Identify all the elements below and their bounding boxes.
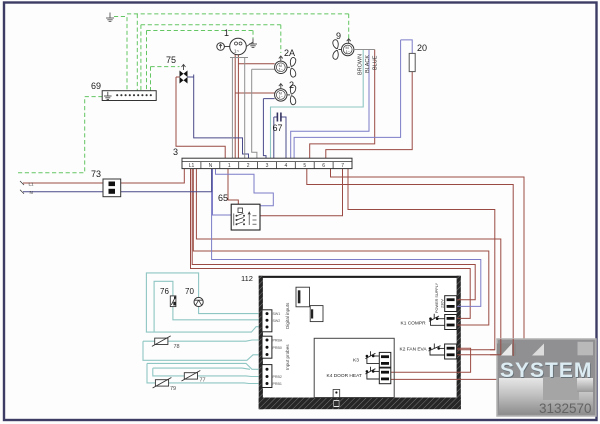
svg-text:N: N (209, 163, 213, 169)
svg-text:6: 6 (322, 163, 325, 169)
svg-text:K3: K3 (353, 358, 359, 364)
svg-text:K4 DOOR HEAT: K4 DOOR HEAT (327, 373, 362, 379)
svg-text:3: 3 (266, 163, 269, 169)
svg-text:L1: L1 (29, 181, 35, 186)
svg-text:PRB1: PRB1 (273, 382, 282, 386)
svg-text:1~: 1~ (234, 49, 240, 54)
svg-text:1: 1 (228, 163, 231, 169)
svg-text:2: 2 (289, 80, 294, 90)
svg-text:1~: 1~ (279, 68, 283, 72)
svg-text:Input probes: Input probes (285, 344, 290, 370)
svg-text:3132570: 3132570 (539, 401, 592, 416)
svg-text:20: 20 (417, 43, 427, 53)
svg-text:73: 73 (91, 169, 101, 179)
svg-text:4: 4 (285, 163, 288, 169)
svg-text:69: 69 (91, 81, 101, 91)
svg-text:79: 79 (170, 386, 176, 392)
svg-text:PRBA: PRBA (273, 339, 283, 343)
svg-text:3: 3 (173, 147, 178, 157)
svg-text:K1 COMPR: K1 COMPR (401, 321, 427, 327)
svg-text:1: 1 (224, 28, 229, 38)
svg-text:65: 65 (218, 193, 228, 203)
svg-text:1~: 1~ (279, 95, 283, 99)
svg-text:POWER SUPPLY: POWER SUPPLY (435, 282, 439, 313)
svg-text:75: 75 (166, 55, 176, 65)
svg-text:2A: 2A (284, 48, 295, 58)
svg-text:BROWN: BROWN (358, 54, 364, 75)
svg-text:230V: 230V (441, 299, 445, 308)
svg-text:7: 7 (341, 163, 344, 169)
svg-text:78: 78 (174, 344, 180, 350)
svg-text:SW2: SW2 (273, 319, 281, 323)
svg-text:N: N (30, 190, 33, 195)
svg-text:77: 77 (200, 378, 206, 384)
svg-text:112: 112 (241, 274, 253, 283)
svg-text:SW1: SW1 (273, 312, 281, 316)
svg-text:SYSTEM: SYSTEM (500, 359, 592, 382)
svg-text:L1: L1 (189, 163, 195, 169)
svg-text:PRB2: PRB2 (273, 375, 282, 379)
svg-text:BLUE: BLUE (373, 55, 379, 70)
svg-text:5: 5 (303, 163, 306, 169)
svg-text:1~: 1~ (346, 50, 350, 54)
svg-text:2: 2 (247, 163, 250, 169)
svg-text:K2 FAN EVA: K2 FAN EVA (400, 347, 428, 353)
svg-text:76: 76 (160, 287, 169, 296)
svg-text:BLACK: BLACK (365, 55, 371, 73)
svg-text:Digital inputs: Digital inputs (285, 302, 290, 329)
svg-text:9: 9 (336, 31, 341, 41)
svg-text:67: 67 (273, 123, 283, 133)
svg-text:PRB0: PRB0 (273, 346, 282, 350)
svg-text:70: 70 (185, 287, 194, 296)
